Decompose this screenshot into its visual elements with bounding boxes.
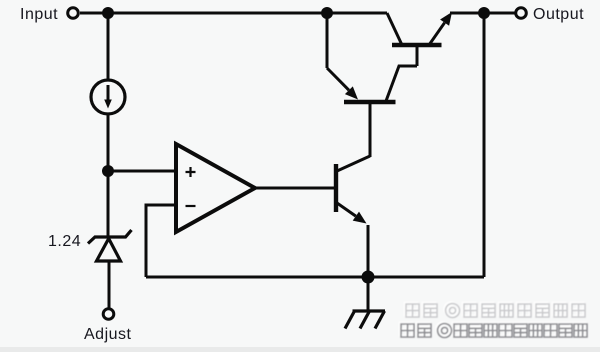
wire: zener to Adjust terminal	[108, 261, 111, 308]
watermark line 2 (toutiao)	[400, 322, 588, 338]
wire: input node down to current source	[107, 13, 110, 80]
op-amp U1 (error amplifier)	[176, 144, 255, 232]
wire: node B to ground	[367, 277, 370, 311]
zener diode D1 (1.24V reference)	[88, 230, 132, 261]
wire: Q3 collector up to Q2 base	[369, 103, 372, 157]
node: input rail / current source tap	[102, 7, 114, 19]
node: Q2 emitter tap on input rail	[321, 7, 333, 19]
Output label	[533, 6, 584, 23]
current source I1	[91, 80, 125, 114]
Input label	[20, 6, 58, 23]
node: output rail / feedback tap	[478, 7, 490, 19]
watermark line 1 (faint zhihu)	[405, 302, 586, 318]
wire: Q3 emitter down to feedback node	[367, 225, 370, 277]
transistor Q1 (NPN pass transistor)	[387, 12, 452, 66]
Output terminal	[516, 8, 527, 19]
bottom border band	[0, 347, 600, 352]
transistor Q3 (NPN driver)	[336, 156, 370, 224]
wire: node A to op-amp + input	[108, 170, 174, 173]
transistor Q2 (PNP, pre-driver)	[327, 66, 417, 102]
Adjust terminal	[103, 309, 114, 320]
node B: feedback / ground junction	[362, 271, 375, 284]
wire: op-amp output to Q3 base	[255, 187, 334, 190]
ground	[345, 311, 385, 329]
wire: current source to node A	[107, 114, 110, 171]
wire: rail node down to Q2 emitter	[326, 13, 329, 68]
input terminal	[68, 8, 79, 19]
Adjust label	[84, 326, 132, 343]
1.24 value label	[48, 233, 81, 250]
wire: feedback bottom rail	[146, 276, 484, 279]
wire: node A down to zener	[107, 171, 110, 236]
node A: reference node (zener / op-amp +)	[102, 165, 114, 177]
wire: top input rail	[80, 12, 387, 15]
wire: output feedback right-side vertical	[483, 13, 486, 277]
wire: op-amp - input feedback (left and down)	[146, 205, 176, 277]
wire: output rail	[450, 12, 515, 15]
